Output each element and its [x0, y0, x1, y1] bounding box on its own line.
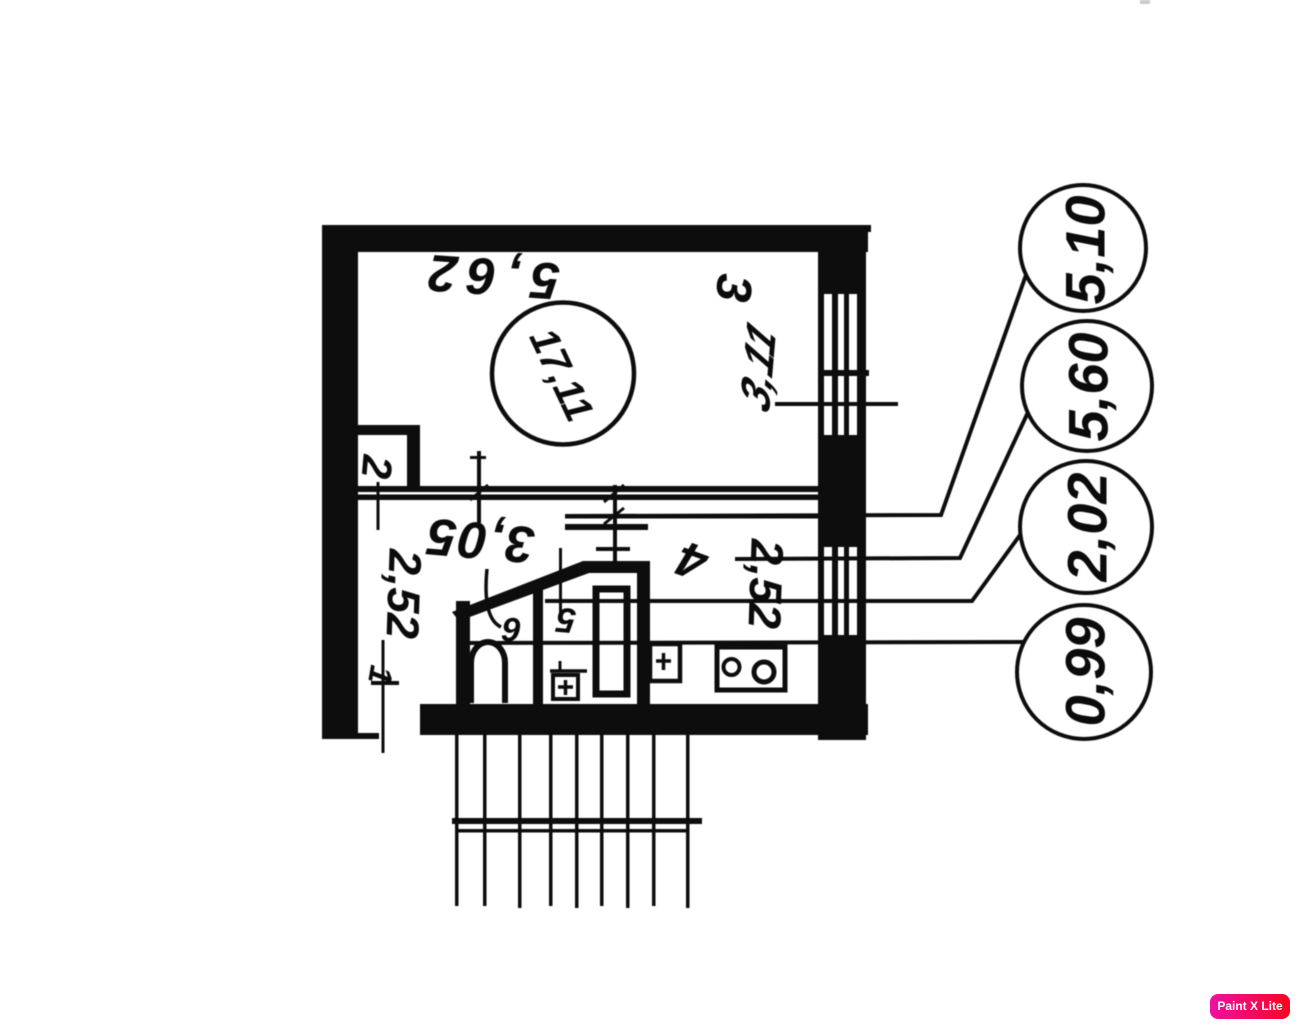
svg-text:3: 3 — [705, 272, 763, 305]
svg-text:2,52: 2,52 — [376, 547, 431, 640]
svg-text:2: 2 — [353, 452, 402, 480]
svg-text:5,62: 5,62 — [417, 242, 562, 310]
svg-text:2,02: 2,02 — [1056, 473, 1119, 583]
svg-text:0,99: 0,99 — [1054, 618, 1117, 727]
svg-text:5: 5 — [554, 600, 577, 641]
svg-text:3,05: 3,05 — [423, 506, 537, 573]
svg-text:5,10: 5,10 — [1054, 196, 1117, 305]
svg-text:2,52: 2,52 — [738, 537, 793, 630]
svg-text:5,60: 5,60 — [1057, 333, 1120, 442]
